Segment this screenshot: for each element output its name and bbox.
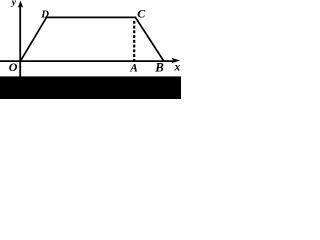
black bar [0,76,181,99]
trapezoid side CB [135,17,163,61]
svg-text:B: B [154,61,164,75]
trapezoid side OD [20,17,46,61]
trapezoid top side DC [46,16,137,18]
y-axis arrowhead [18,1,23,8]
dashed altitude CA [133,21,135,62]
svg-text:A: A [129,62,138,74]
x-axis [0,60,175,62]
svg-text:C: C [137,6,146,20]
y-axis [19,6,21,78]
svg-text:O: O [9,60,18,74]
svg-text:D: D [40,8,49,20]
svg-text:y: y [11,0,17,8]
svg-text:x: x [174,61,181,73]
x-axis arrowhead [171,58,180,64]
